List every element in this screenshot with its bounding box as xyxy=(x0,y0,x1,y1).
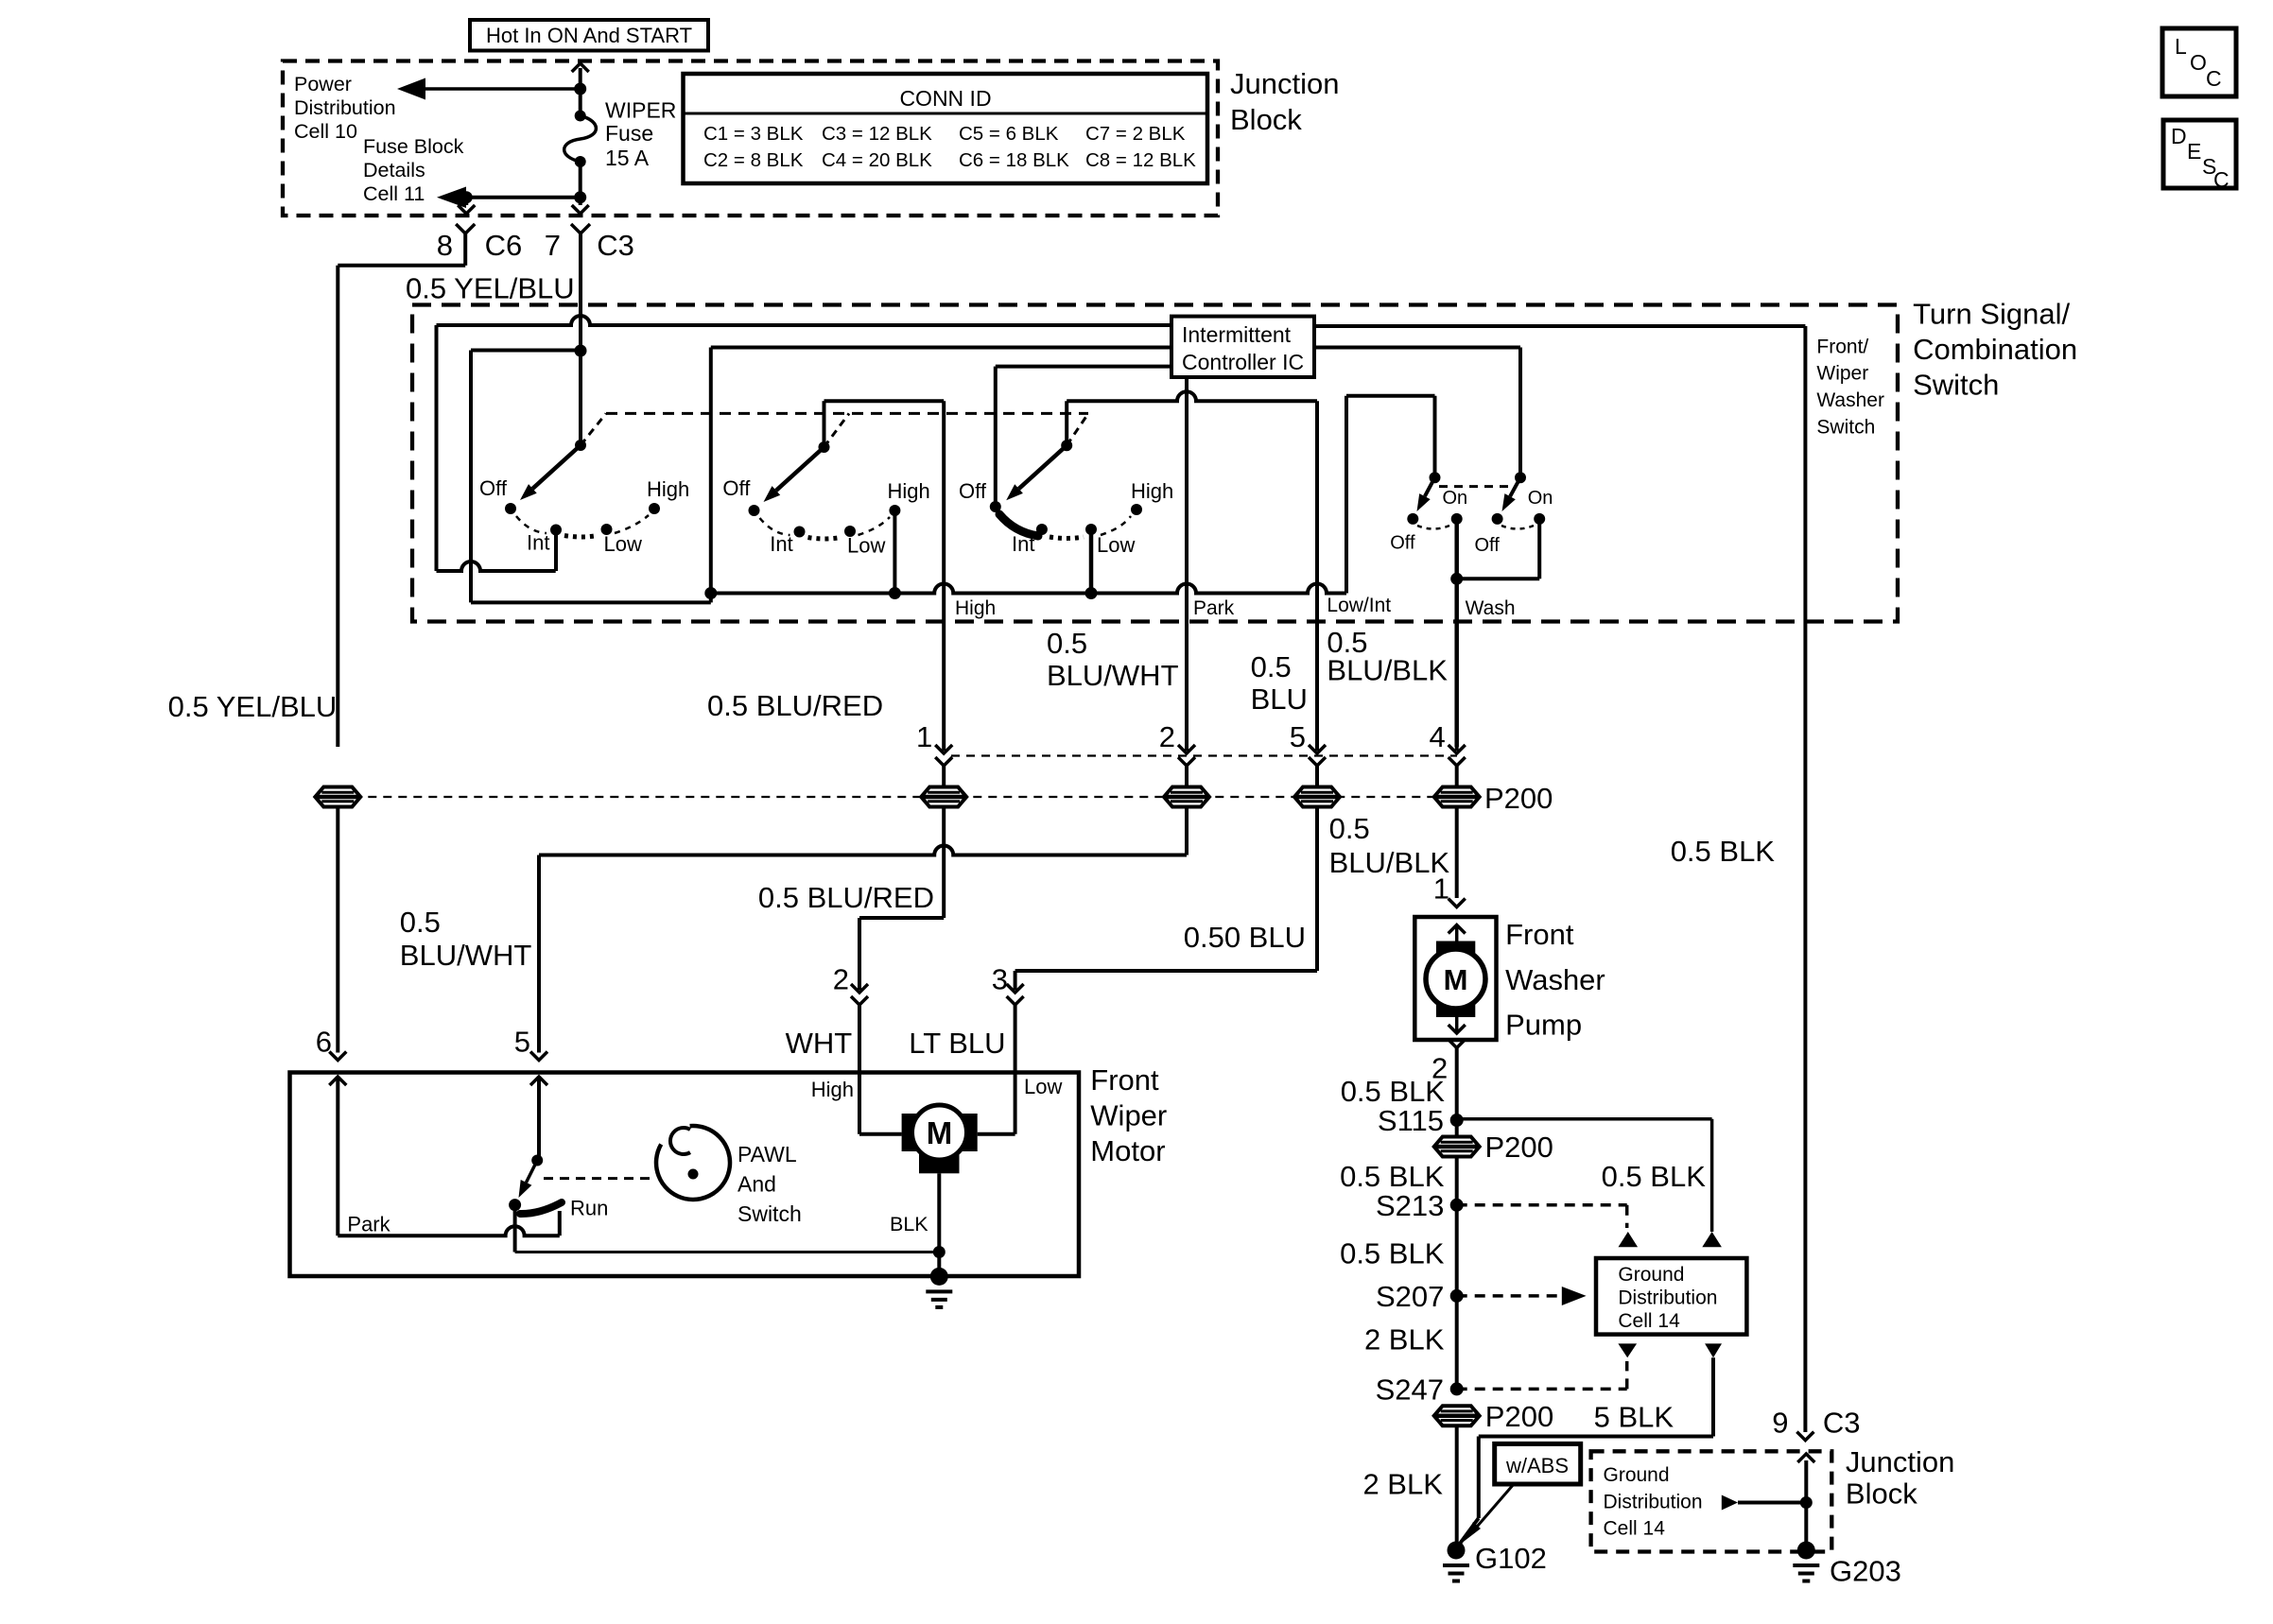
svg-text:Int: Int xyxy=(770,532,792,556)
svg-text:C: C xyxy=(2213,167,2230,192)
svg-text:WIPER: WIPER xyxy=(605,98,676,123)
svg-text:P200: P200 xyxy=(1484,782,1553,815)
svg-text:Cell 11: Cell 11 xyxy=(363,182,425,205)
svg-text:3: 3 xyxy=(992,963,1008,996)
svg-text:Cell 14: Cell 14 xyxy=(1618,1310,1680,1332)
svg-text:Fuse Block: Fuse Block xyxy=(363,135,464,158)
svg-text:D: D xyxy=(2171,124,2187,148)
svg-text:Controller IC: Controller IC xyxy=(1182,350,1304,374)
svg-text:5: 5 xyxy=(1290,720,1306,753)
svg-text:Wash: Wash xyxy=(1466,597,1516,619)
svg-text:C: C xyxy=(2206,66,2222,91)
svg-text:9: 9 xyxy=(1772,1406,1788,1439)
svg-text:Off: Off xyxy=(722,476,751,500)
svg-text:8: 8 xyxy=(437,229,453,262)
svg-text:Combination: Combination xyxy=(1913,333,2077,366)
svg-text:Front/: Front/ xyxy=(1816,336,1868,357)
svg-text:Run: Run xyxy=(570,1196,608,1219)
svg-text:C7 = 2 BLK: C7 = 2 BLK xyxy=(1085,123,1186,145)
svg-text:Wiper: Wiper xyxy=(1090,1098,1167,1132)
svg-text:C3: C3 xyxy=(1823,1406,1861,1439)
svg-text:2: 2 xyxy=(1159,720,1175,753)
svg-text:BLK: BLK xyxy=(890,1213,928,1235)
svg-text:O: O xyxy=(2190,50,2207,75)
svg-text:G102: G102 xyxy=(1475,1542,1547,1575)
svg-text:C6: C6 xyxy=(485,229,523,262)
svg-text:On: On xyxy=(1528,488,1553,509)
svg-text:BLU/WHT: BLU/WHT xyxy=(400,939,532,972)
svg-text:4: 4 xyxy=(1429,720,1445,753)
svg-text:Pump: Pump xyxy=(1505,1009,1582,1042)
svg-text:Off: Off xyxy=(479,476,508,500)
svg-text:BLU/BLK: BLU/BLK xyxy=(1329,846,1450,879)
svg-text:Switch: Switch xyxy=(737,1201,802,1226)
svg-text:M: M xyxy=(1444,963,1468,996)
svg-text:C8 = 12 BLK: C8 = 12 BLK xyxy=(1085,149,1196,171)
svg-text:Park: Park xyxy=(347,1213,390,1236)
svg-text:C4 = 20 BLK: C4 = 20 BLK xyxy=(822,149,932,171)
svg-text:0.5 BLK: 0.5 BLK xyxy=(1340,1236,1445,1270)
svg-text:Fuse: Fuse xyxy=(605,121,653,146)
svg-text:Junction: Junction xyxy=(1230,67,1339,100)
svg-text:BLU/WHT: BLU/WHT xyxy=(1047,659,1179,692)
svg-text:w/ABS: w/ABS xyxy=(1505,1454,1569,1477)
svg-text:Motor: Motor xyxy=(1090,1134,1165,1167)
svg-text:1: 1 xyxy=(916,720,932,753)
svg-text:Park: Park xyxy=(1193,597,1235,619)
svg-text:Int: Int xyxy=(1012,532,1034,556)
svg-text:Turn Signal/: Turn Signal/ xyxy=(1913,298,2070,331)
svg-text:M: M xyxy=(927,1115,953,1150)
svg-text:0.5 BLU/RED: 0.5 BLU/RED xyxy=(707,689,883,722)
svg-text:S247: S247 xyxy=(1376,1373,1444,1406)
svg-text:Low/Int: Low/Int xyxy=(1327,595,1391,616)
svg-text:G203: G203 xyxy=(1830,1554,1901,1587)
svg-text:P200: P200 xyxy=(1485,1131,1553,1164)
svg-text:Ground: Ground xyxy=(1618,1264,1684,1286)
svg-text:Front: Front xyxy=(1090,1063,1159,1097)
svg-text:0.5 BLK: 0.5 BLK xyxy=(1602,1160,1707,1193)
svg-text:C5 = 6 BLK: C5 = 6 BLK xyxy=(959,123,1059,145)
svg-text:S213: S213 xyxy=(1376,1189,1444,1222)
svg-text:Power: Power xyxy=(294,73,352,95)
svg-text:PAWL: PAWL xyxy=(737,1142,797,1166)
svg-text:Junction: Junction xyxy=(1846,1445,1954,1478)
svg-text:Low: Low xyxy=(1024,1075,1062,1098)
svg-text:BLU: BLU xyxy=(1251,682,1308,716)
svg-text:Distribution: Distribution xyxy=(1604,1492,1703,1513)
svg-text:E: E xyxy=(2187,139,2201,164)
svg-text:Distribution: Distribution xyxy=(294,96,396,119)
svg-text:Cell 10: Cell 10 xyxy=(294,120,357,143)
svg-text:On: On xyxy=(1443,488,1468,509)
svg-text:0.5 BLK: 0.5 BLK xyxy=(1671,835,1776,868)
svg-text:0.5: 0.5 xyxy=(1047,627,1087,660)
svg-text:Block: Block xyxy=(1846,1477,1917,1511)
svg-text:S207: S207 xyxy=(1376,1280,1444,1313)
svg-text:Off: Off xyxy=(1475,535,1501,556)
svg-text:Int: Int xyxy=(527,531,549,555)
svg-text:0.5 BLK: 0.5 BLK xyxy=(1340,1160,1445,1193)
svg-text:And: And xyxy=(737,1172,776,1197)
svg-text:LT BLU: LT BLU xyxy=(909,1027,1005,1060)
svg-text:0.5 YEL/BLU: 0.5 YEL/BLU xyxy=(168,690,338,723)
svg-text:High: High xyxy=(955,597,996,619)
svg-text:7: 7 xyxy=(545,229,561,262)
svg-text:Washer: Washer xyxy=(1505,963,1605,996)
svg-text:High: High xyxy=(888,479,930,503)
svg-text:Block: Block xyxy=(1230,103,1302,136)
svg-text:Off: Off xyxy=(1390,532,1415,553)
svg-text:0.5 YEL/BLU: 0.5 YEL/BLU xyxy=(406,271,575,304)
svg-text:Wiper: Wiper xyxy=(1816,363,1868,385)
svg-text:Low: Low xyxy=(1097,533,1135,557)
svg-text:5: 5 xyxy=(514,1026,530,1059)
svg-text:Front: Front xyxy=(1505,918,1574,951)
svg-text:0.5: 0.5 xyxy=(400,906,441,939)
svg-text:Off: Off xyxy=(959,479,987,503)
svg-text:Cell 14: Cell 14 xyxy=(1604,1517,1666,1539)
svg-text:L: L xyxy=(2175,34,2187,59)
svg-text:Distribution: Distribution xyxy=(1618,1287,1717,1309)
svg-text:WHT: WHT xyxy=(786,1027,853,1060)
svg-text:15 A: 15 A xyxy=(605,146,650,170)
svg-text:0.5 BLK: 0.5 BLK xyxy=(1341,1075,1446,1108)
svg-text:Intermittent: Intermittent xyxy=(1182,322,1292,347)
svg-text:1: 1 xyxy=(1433,872,1449,906)
svg-text:2 BLK: 2 BLK xyxy=(1364,1323,1445,1356)
svg-text:S115: S115 xyxy=(1378,1104,1444,1137)
svg-text:Details: Details xyxy=(363,159,425,181)
svg-text:C3: C3 xyxy=(597,229,634,262)
svg-text:Washer: Washer xyxy=(1816,389,1884,411)
svg-text:2: 2 xyxy=(833,963,849,996)
svg-text:C2 = 8 BLK: C2 = 8 BLK xyxy=(703,149,804,171)
svg-text:CONN ID: CONN ID xyxy=(899,86,991,111)
svg-text:P200: P200 xyxy=(1485,1400,1553,1433)
svg-text:Switch: Switch xyxy=(1816,417,1875,439)
svg-text:C3 = 12 BLK: C3 = 12 BLK xyxy=(822,123,932,145)
svg-text:0.5 BLU/RED: 0.5 BLU/RED xyxy=(758,881,934,914)
svg-text:2 BLK: 2 BLK xyxy=(1362,1467,1443,1500)
svg-text:5 BLK: 5 BLK xyxy=(1594,1401,1674,1434)
svg-text:C6 = 18 BLK: C6 = 18 BLK xyxy=(959,149,1069,171)
svg-text:Switch: Switch xyxy=(1913,369,1999,402)
svg-text:High: High xyxy=(811,1078,854,1101)
svg-text:0.50 BLU: 0.50 BLU xyxy=(1184,921,1306,954)
svg-text:BLU/BLK: BLU/BLK xyxy=(1327,654,1448,687)
svg-text:Hot In ON And START: Hot In ON And START xyxy=(486,24,692,47)
svg-text:0.5: 0.5 xyxy=(1251,650,1292,683)
svg-text:C1 = 3 BLK: C1 = 3 BLK xyxy=(703,123,804,145)
svg-text:0.5: 0.5 xyxy=(1329,812,1370,845)
svg-text:High: High xyxy=(1131,479,1173,503)
svg-text:Low: Low xyxy=(847,534,885,558)
svg-text:High: High xyxy=(647,477,689,501)
svg-text:Ground: Ground xyxy=(1604,1464,1670,1486)
svg-text:Low: Low xyxy=(604,532,642,556)
